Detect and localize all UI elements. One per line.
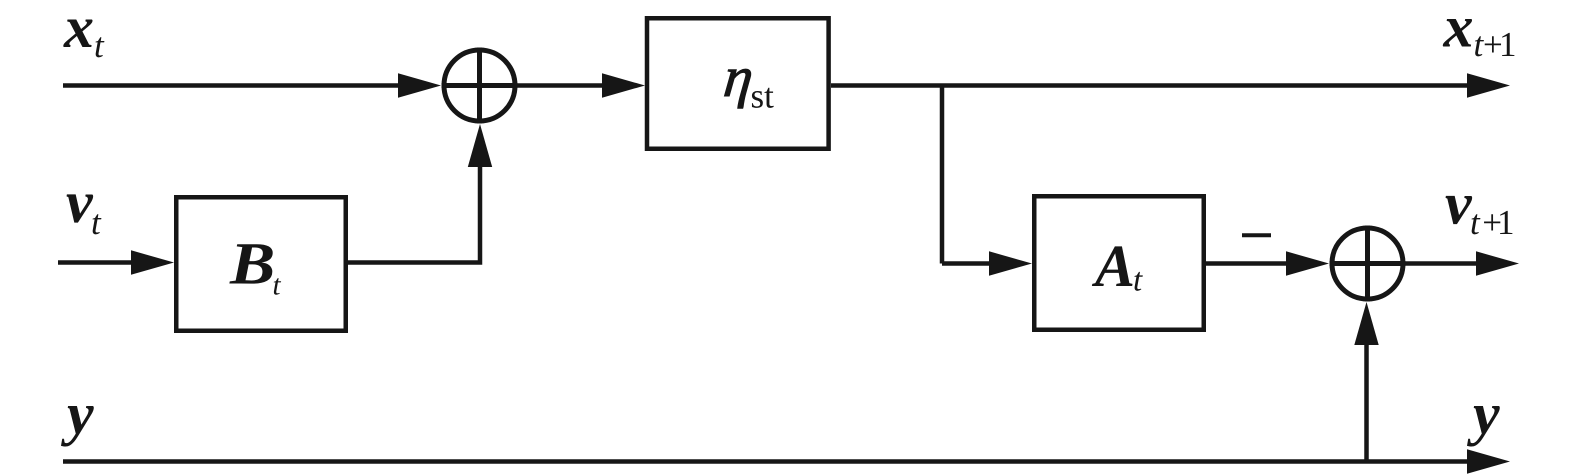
arrowhead into B_t box bbox=[131, 250, 174, 274]
label v_t bbox=[67, 194, 102, 234]
wire eta box to x_t+1 output bbox=[831, 83, 1470, 88]
label x_t bbox=[63, 19, 104, 57]
arrowhead y output bbox=[1467, 449, 1510, 473]
label A_t in block bbox=[1092, 246, 1143, 290]
label x_t+1 bbox=[1443, 19, 1515, 56]
arrowhead v_t+1 output bbox=[1476, 251, 1519, 275]
arrowhead into eta box bbox=[602, 73, 645, 97]
arrowhead into adder U2 bbox=[1286, 251, 1329, 275]
label eta_st in block bbox=[725, 69, 774, 108]
adder U2 (circle-plus) bbox=[1330, 226, 1406, 302]
arrowhead x_t+1 output bbox=[1467, 73, 1510, 97]
label y right bbox=[1467, 406, 1500, 446]
adder U1 (circle-plus) bbox=[442, 48, 518, 124]
wire branch to A_t box bbox=[942, 261, 991, 266]
wire A_t box to adder U2 bbox=[1206, 261, 1288, 266]
wire adder U2 to v_t+1 output bbox=[1406, 261, 1479, 266]
wire adder U1 to eta box bbox=[518, 83, 605, 88]
block eta_st bbox=[647, 18, 829, 149]
label v_t+1 bbox=[1446, 196, 1513, 234]
label B_t in block bbox=[229, 244, 281, 295]
node branch at top rail bbox=[940, 86, 945, 264]
label y left bbox=[61, 406, 94, 446]
wire x_t input rail bbox=[63, 83, 400, 88]
minus sign at adder U2 input bbox=[1242, 233, 1271, 237]
arrowhead into adder U1 bbox=[398, 73, 441, 97]
arrowhead into A_t box bbox=[989, 251, 1032, 275]
arrowhead into adder U1 bottom bbox=[468, 124, 492, 167]
block B_t bbox=[176, 197, 346, 331]
block A_t bbox=[1034, 196, 1204, 330]
wire B_t box to adder U1 bbox=[348, 166, 480, 263]
wire y rail branch to adder U2 bbox=[1364, 344, 1369, 462]
wire v_t input bbox=[58, 260, 133, 265]
wire y rail bbox=[63, 459, 1470, 464]
arrowhead into adder U2 bottom bbox=[1354, 302, 1378, 345]
